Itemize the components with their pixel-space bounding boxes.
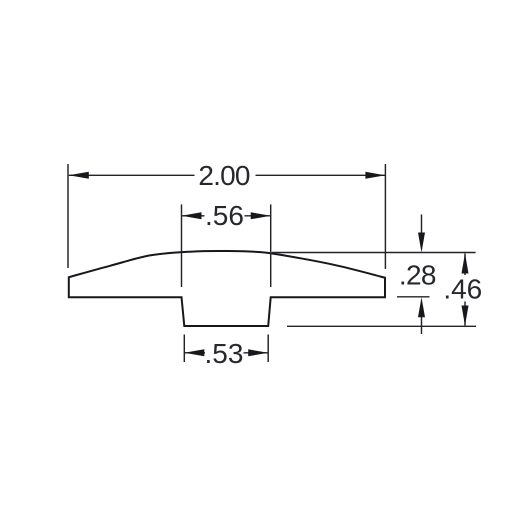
- dim 2.00 extension line right: [384, 164, 386, 269]
- dim 2.00 arrow right: [365, 172, 385, 179]
- svg-text:2.00: 2.00: [198, 160, 250, 191]
- dim .56 extension line left: [181, 204, 183, 287]
- svg-text:.56: .56: [205, 200, 244, 231]
- dim .56 line: [182, 215, 205, 217]
- dim .56 arrow right: [251, 212, 271, 219]
- dim .56 extension line right: [270, 204, 272, 287]
- dim .53 extension line right: [267, 335, 269, 363]
- dim .28 bottom extension line (profile bottom): [397, 296, 430, 298]
- dim .28 lower arrow (up): [418, 297, 425, 317]
- dim 2.00 line: [69, 174, 195, 176]
- svg-text:.28: .28: [399, 259, 436, 290]
- dim .53 line: [184, 352, 205, 354]
- dim .46 line: [464, 254, 466, 276]
- dim .53 arrow right: [248, 349, 268, 356]
- profile outline (T-molding cross-section): [69, 251, 385, 326]
- dim .53 arrow left: [184, 349, 204, 356]
- dim .28 lower leader: [421, 307, 423, 334]
- dim 2.00 extension line left: [67, 164, 69, 268]
- dim .53 extension line left: [183, 335, 185, 363]
- svg-text:.46: .46: [443, 273, 482, 304]
- dim 2.00 arrow left: [69, 172, 89, 179]
- dim .46 bottom extension line (tab bottom): [287, 325, 476, 327]
- dim .28 top extension line (curve peak): [272, 252, 476, 254]
- dim .28 upper arrow (down): [418, 233, 425, 253]
- dim .46 arrow top (up): [462, 253, 469, 273]
- svg-text:.53: .53: [205, 338, 244, 369]
- dim .56 arrow left: [182, 212, 202, 219]
- dim .28 upper leader: [421, 215, 423, 245]
- dim .46 arrow bottom (down): [462, 306, 469, 326]
